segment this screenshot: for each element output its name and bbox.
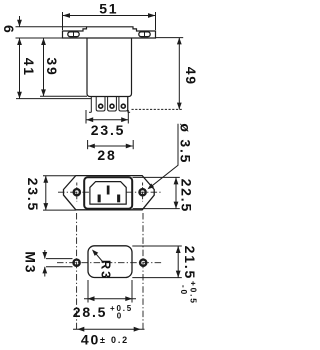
svg-text:21.5: 21.5 <box>182 246 198 280</box>
dimension 23.5 upper <box>86 110 128 124</box>
front view recess rounded rect <box>84 177 132 208</box>
front view horizontal centerline <box>58 191 90 193</box>
bottom view horizontal centerline <box>57 262 162 264</box>
svg-text:49: 49 <box>183 67 199 86</box>
svg-text:± 0.2: ± 0.2 <box>100 335 129 345</box>
line pin <box>98 195 101 203</box>
neutral pin <box>117 195 120 203</box>
svg-text:R3: R3 <box>99 260 114 280</box>
dimension 40 text <box>81 332 129 348</box>
front view right mounting hole <box>140 183 146 202</box>
svg-text:M3: M3 <box>22 251 38 274</box>
svg-text:+0.5: +0.5 <box>189 281 199 305</box>
right ear hole slot <box>139 31 150 37</box>
svg-text:6: 6 <box>1 25 17 35</box>
dimension 49 <box>132 38 184 110</box>
dimension 23.5 front <box>43 176 76 210</box>
dimension 40 <box>73 327 145 332</box>
left hole vertical centerline <box>76 213 78 332</box>
terminal tab 1 <box>96 97 105 112</box>
svg-text:41: 41 <box>21 58 37 77</box>
bottom view left M3 hole <box>74 260 80 266</box>
right hole vertical centerline <box>142 213 144 332</box>
dimension 21.5 tolerance text <box>179 281 199 305</box>
flange side profile <box>63 27 156 38</box>
bottom view body rounded rect <box>88 246 132 278</box>
dimension 6 <box>16 16 87 38</box>
C14 connector face outline <box>90 182 126 205</box>
svg-text:40: 40 <box>81 332 100 348</box>
diameter 3.5 leader <box>148 124 179 190</box>
svg-text:22.5: 22.5 <box>178 179 194 213</box>
dimension 41 <box>16 38 91 99</box>
terminal shroud walls <box>89 97 130 113</box>
svg-text:51: 51 <box>99 0 118 16</box>
dimension 22.5 <box>133 177 180 208</box>
left ear hole slot <box>68 31 79 37</box>
dimension 28 <box>88 140 134 149</box>
dimension 51 line <box>63 12 156 30</box>
svg-text:23.5: 23.5 <box>91 122 125 138</box>
dimension 28.5 text <box>73 304 133 320</box>
svg-text:0: 0 <box>117 311 123 320</box>
terminal tab 3 <box>119 97 128 112</box>
earth pin <box>107 186 110 195</box>
terminal tab 2 <box>108 97 117 112</box>
svg-text:28: 28 <box>97 147 116 163</box>
dimension 21.5 <box>132 246 182 278</box>
svg-text:ø 3.5: ø 3.5 <box>177 123 193 164</box>
filter body side view <box>87 38 132 97</box>
dimension M3 <box>42 250 72 277</box>
radius R3 leader <box>92 250 103 262</box>
front view left mounting hole <box>74 183 80 202</box>
svg-text:-0: -0 <box>179 285 189 296</box>
dimension 28.5 <box>84 280 136 303</box>
svg-text:28.5: 28.5 <box>73 304 107 320</box>
svg-text:23.5: 23.5 <box>25 178 41 212</box>
svg-text:39: 39 <box>44 57 60 76</box>
dimension 39 <box>40 38 87 96</box>
bottom view right M3 hole <box>140 260 146 266</box>
front view flange hexagon <box>64 176 155 210</box>
